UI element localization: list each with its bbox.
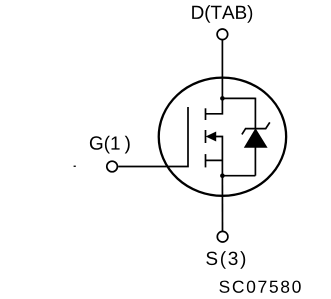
wire: top rail to diode branch [222,97,255,99]
wire: diode branch upper vertical [254,98,256,130]
node G(1) label [90,136,130,154]
MOSFET Q1 channel bar (body, middle) [205,130,207,143]
transistor body outline (package ellipse) [159,78,286,196]
wire: diode branch lower vertical [254,147,256,176]
MOSFET Q1 body arrow (points to channel) [207,132,216,141]
zener diode cathode bar with bent tails [242,122,270,134]
terminal G (pad circle) [107,161,118,172]
terminal D (pad circle) [217,29,228,40]
MOSFET Q1 gate electrode [118,107,188,167]
wire: drain terminal to top node [221,40,223,99]
wire: source bar to source vertical [206,159,223,161]
node D(TAB) label [192,5,252,23]
wire: bottom rail from diode to source node [222,175,255,177]
MOSFET Q1 channel bar (source side) [205,154,207,167]
wire: drain bar to top node [206,98,223,113]
wire: body arrow to source vertical [215,137,223,176]
node A (drain junction dot) [220,96,225,101]
zener diode D1 (body diode, filled triangle anode) [245,129,267,147]
terminal S (pad circle) [217,231,228,242]
node S(3) label [206,251,245,269]
stray mark (speck left of gate terminal) [74,166,76,167]
MOSFET Q1 channel bar (drain side) [205,108,207,120]
figure code SC07580 [219,281,300,293]
node B (source junction dot) [220,173,225,178]
wire: source node to source terminal [221,176,223,232]
